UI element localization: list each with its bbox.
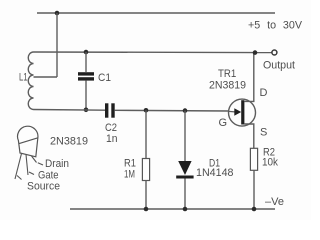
junction: R1 top — [144, 108, 149, 113]
svg-text:+5 to 30V: +5 to 30V — [248, 20, 303, 32]
wire: drain rail (L1 top / C1 / drain / output) — [34, 51, 272, 54]
junction: C1 top on drain rail — [84, 50, 89, 55]
resistor R2 — [250, 148, 257, 209]
wire: L1 tap horizontal — [34, 76, 58, 78]
svg-text:L1: L1 — [19, 72, 28, 84]
resistor R1 — [142, 110, 149, 209]
junction: drain on rail — [253, 50, 258, 55]
junction: D1 bottom — [183, 207, 188, 212]
junction: D1 top — [183, 108, 188, 113]
wire: tank bottom line L1 to C2 — [34, 109, 106, 112]
node: Output terminal — [272, 50, 277, 55]
svg-text:TR1: TR1 — [218, 68, 236, 80]
svg-text:D: D — [260, 87, 268, 99]
svg-text:C1: C1 — [98, 72, 111, 84]
inductor L1 — [28, 52, 33, 110]
svg-text:2N3819: 2N3819 — [209, 80, 246, 92]
svg-text:–Ve: –Ve — [265, 196, 284, 208]
pin pointer Drain — [38, 163, 43, 165]
svg-text:S: S — [260, 127, 267, 139]
wire: +V supply top rail — [37, 12, 275, 14]
svg-text:Drain: Drain — [45, 158, 69, 170]
capacitor C1 — [78, 52, 94, 110]
junction: C1 bottom on tank line — [84, 108, 89, 113]
2N3819 package drawing (pinout) — [15, 126, 38, 179]
svg-text:1N4148: 1N4148 — [196, 167, 234, 179]
junction: R1 bottom — [144, 207, 149, 212]
junction: R2 bottom — [252, 207, 257, 212]
svg-text:1n: 1n — [106, 133, 118, 145]
transistor TR1 (2N3819 JFET) — [229, 53, 256, 149]
svg-text:Output: Output — [263, 60, 295, 72]
wire: vertical from +V rail to L1 tap — [56, 13, 58, 77]
svg-text:Source: Source — [27, 181, 60, 193]
junction: tap feed on +V rail — [55, 11, 60, 16]
capacitor C2 — [105, 103, 115, 117]
svg-text:10k: 10k — [262, 157, 278, 169]
diode D1 — [176, 111, 193, 209]
pin pointer Source — [17, 176, 22, 180]
svg-text:G: G — [219, 117, 228, 129]
svg-text:1M: 1M — [124, 169, 135, 181]
wire: C2 to gate — [115, 109, 229, 112]
pin pointer Gate — [29, 172, 34, 175]
svg-text:2N3819: 2N3819 — [50, 136, 88, 148]
wire: -Ve bottom rail — [70, 208, 275, 210]
